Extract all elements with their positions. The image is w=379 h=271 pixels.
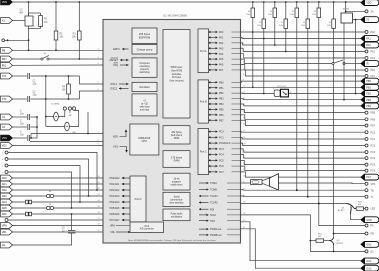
tag C4 row y127 + capacitor bbox=[1, 124, 13, 130]
wire Q1 base pull branch to terminal bbox=[319, 204, 365, 226]
tag AN5 row bbox=[1, 205, 13, 211]
tag PA2 out bbox=[361, 42, 379, 48]
pin PA5 bbox=[209, 58, 218, 60]
wire crystal junction vertical x45.8 bbox=[45, 76, 47, 127]
svg-text:RAM: RAM bbox=[174, 159, 180, 163]
svg-text:TCAP2: TCAP2 bbox=[210, 202, 218, 205]
resistor R1 parallel bbox=[29, 12, 41, 14]
svg-text:PA6: PA6 bbox=[371, 69, 376, 72]
svg-text:Port D: Port D bbox=[135, 198, 142, 201]
svg-text:PB4: PB4 bbox=[219, 103, 224, 106]
transistor Q1 bbox=[347, 204, 357, 209]
wire TCMB row bbox=[241, 189, 366, 192]
block EEPROM bbox=[132, 28, 157, 44]
wire PC6 row to terminal bbox=[241, 166, 366, 171]
svg-text:Y1 4MHz: Y1 4MHz bbox=[51, 104, 60, 106]
svg-text:PD0/AN0: PD0/AN0 bbox=[110, 177, 121, 180]
wire PA0 row to terminal bbox=[241, 31, 366, 33]
terminal PC5 out bbox=[365, 163, 368, 166]
tag GND2 bbox=[361, 242, 379, 248]
jumper pins J1 bbox=[63, 107, 66, 110]
svg-text:AN2: AN2 bbox=[2, 188, 8, 192]
svg-text:Pulse width: Pulse width bbox=[171, 212, 183, 215]
tag OSC row y99 + capacitor C2 bbox=[1, 96, 13, 102]
pin PC3 bbox=[209, 148, 218, 150]
svg-text:C3: C3 bbox=[2, 115, 6, 119]
svg-text:X2 32k: X2 32k bbox=[343, 9, 351, 11]
wire VSS row y141.5 bbox=[30, 141, 103, 143]
wire PC3 row to terminal bbox=[241, 149, 366, 152]
tag X2 out bbox=[361, 17, 379, 23]
svg-text:PA6: PA6 bbox=[219, 64, 224, 67]
wire PB4 row to terminal bbox=[241, 104, 362, 106]
terminal LED1 bbox=[365, 207, 368, 210]
svg-text:PB6: PB6 bbox=[371, 118, 376, 121]
pin PA7 bbox=[209, 69, 218, 71]
block Port C bbox=[198, 129, 209, 175]
terminal PC3 out bbox=[365, 151, 368, 154]
tag PB3 out bbox=[361, 97, 379, 103]
svg-text:PC2: PC2 bbox=[371, 145, 376, 148]
svg-text:PD6/AN6: PD6/AN6 bbox=[110, 213, 121, 216]
ferrite L2 on row 208 bbox=[47, 206, 50, 209]
svg-text:PC6: PC6 bbox=[219, 165, 224, 168]
svg-text:1M: 1M bbox=[44, 21, 47, 24]
pin PB5 bbox=[209, 108, 218, 110]
block PWM bbox=[163, 209, 190, 221]
tag RESET row y59 with switch S1 bbox=[1, 56, 13, 62]
svg-text:1: 1 bbox=[273, 88, 274, 90]
pin TCMA bbox=[199, 182, 209, 184]
svg-text:PC4: PC4 bbox=[219, 154, 224, 157]
tag PB4 out bbox=[361, 103, 379, 109]
terminal PB6 out bbox=[365, 118, 368, 121]
svg-text:PB0: PB0 bbox=[366, 80, 371, 83]
tag OUT2 bbox=[361, 265, 379, 271]
switch S1 bbox=[41, 58, 43, 60]
wire PB6 row to terminal bbox=[241, 115, 366, 119]
block oscillator bbox=[132, 82, 157, 91]
wire tag X1 to component bbox=[1, 18, 13, 24]
svg-text:AN4: AN4 bbox=[2, 200, 8, 204]
pin PB3 bbox=[209, 98, 218, 100]
svg-text:16-bit: 16-bit bbox=[174, 178, 180, 181]
svg-text:LED: LED bbox=[371, 208, 376, 211]
wire OSC2 jog bbox=[80, 91, 104, 99]
svg-text:SPK: SPK bbox=[371, 183, 376, 186]
svg-text:BC817: BC817 bbox=[337, 243, 344, 245]
svg-text:AN6: AN6 bbox=[2, 212, 8, 216]
capacitor C9 to tag bbox=[71, 214, 73, 230]
wire Q1 emitter to tag bbox=[351, 214, 361, 220]
pin PC7 bbox=[209, 171, 218, 173]
svg-text:1: 1 bbox=[34, 17, 35, 19]
svg-text:PC4: PC4 bbox=[371, 157, 376, 160]
svg-text:OSC1: OSC1 bbox=[110, 83, 117, 86]
svg-text:PA3: PA3 bbox=[371, 51, 376, 54]
wire PA5 row to terminal bbox=[241, 59, 333, 63]
pin PB0 bbox=[209, 81, 218, 83]
svg-text:PD4/AN4: PD4/AN4 bbox=[110, 201, 121, 204]
tag AN2 row bbox=[1, 187, 13, 193]
svg-text:and stop: and stop bbox=[140, 108, 150, 111]
svg-text:TCMB: TCMB bbox=[210, 189, 217, 192]
svg-text:PC5: PC5 bbox=[371, 164, 376, 167]
terminal PWMB out bbox=[365, 232, 368, 235]
svg-text:A/D converter: A/D converter bbox=[140, 228, 154, 231]
block Port B bbox=[198, 80, 209, 123]
svg-text:PA2: PA2 bbox=[219, 42, 224, 45]
pin PC6 bbox=[209, 165, 218, 167]
pin PA1 bbox=[209, 36, 218, 38]
terminal AN7 row bbox=[5, 219, 8, 222]
tag VRH row bbox=[1, 223, 13, 229]
pin PWMB out bbox=[199, 234, 209, 236]
pin TCMB bbox=[199, 189, 209, 191]
wire PC7 row to terminal bbox=[241, 172, 362, 177]
terminal PB7 out bbox=[365, 124, 368, 127]
svg-text:PB2: PB2 bbox=[366, 93, 371, 96]
tag IR out bbox=[361, 61, 379, 67]
wire PB5 row to terminal bbox=[241, 109, 366, 112]
pin PA6 bbox=[209, 64, 218, 66]
wire TCMA to terminal bbox=[278, 182, 365, 185]
wire PA3 row to terminal bbox=[241, 48, 366, 51]
terminal PA4 out bbox=[365, 57, 368, 60]
svg-text:TCAP1: TCAP1 bbox=[210, 195, 218, 198]
transistor Q2 bbox=[329, 237, 333, 241]
filter F1 on row 202 bbox=[26, 200, 29, 204]
svg-text:PA4: PA4 bbox=[371, 57, 376, 60]
pin PC5 bbox=[209, 159, 218, 161]
svg-text:VRH: VRH bbox=[2, 224, 8, 228]
svg-text:XT1: XT1 bbox=[2, 74, 7, 78]
svg-text:PD5/AN5: PD5/AN5 bbox=[110, 207, 121, 210]
svg-text:PB7: PB7 bbox=[219, 119, 224, 122]
svg-text:PC0: PC0 bbox=[371, 131, 376, 134]
pin PB7 bbox=[209, 119, 218, 121]
svg-text:C4: C4 bbox=[2, 125, 6, 129]
svg-text:GN2: GN2 bbox=[366, 244, 372, 247]
tag PB7 row y50 bbox=[1, 47, 13, 53]
svg-text:PB6: PB6 bbox=[219, 114, 224, 117]
pin PC0 bbox=[209, 131, 218, 133]
svg-text:PC6: PC6 bbox=[371, 170, 376, 173]
wire x88 vertical to VDD row bbox=[87, 112, 89, 134]
svg-text:PB7: PB7 bbox=[371, 125, 376, 128]
svg-text:PC7: PC7 bbox=[219, 171, 224, 174]
resonator X2 box bbox=[345, 2, 347, 13]
svg-text:PA4: PA4 bbox=[219, 53, 224, 56]
block 16-bit timer bbox=[163, 173, 190, 190]
terminal PA3 out bbox=[365, 50, 368, 53]
svg-text:XT2: XT2 bbox=[2, 97, 7, 101]
resistor R10 pull-up bbox=[307, 1, 309, 3]
svg-text:TDO: TDO bbox=[210, 220, 215, 223]
svg-text:ROM: ROM bbox=[174, 137, 180, 140]
svg-text:Port C: Port C bbox=[200, 151, 207, 154]
pin SCLK bbox=[199, 214, 209, 216]
tag Q1 emitter out bbox=[361, 217, 379, 223]
speaker LS1 bbox=[241, 182, 251, 184]
svg-text:User vectors): User vectors) bbox=[169, 80, 183, 83]
block Port D bbox=[130, 176, 146, 222]
svg-text:XA: XA bbox=[371, 11, 375, 14]
wire PB7 row to terminal bbox=[241, 120, 366, 125]
svg-text:GND: GND bbox=[366, 219, 372, 222]
terminal X2a bbox=[345, 11, 347, 13]
svg-text:PB0: PB0 bbox=[219, 81, 224, 84]
svg-text:PA1: PA1 bbox=[219, 37, 224, 40]
svg-text:S2 infrared: S2 infrared bbox=[334, 57, 345, 60]
svg-text:PA7: PA7 bbox=[371, 75, 376, 78]
svg-text:CPU: CPU bbox=[142, 139, 148, 143]
wire Q2 emitter bbox=[333, 245, 335, 251]
terminal E2 bbox=[365, 250, 368, 253]
svg-text:modulation: modulation bbox=[171, 215, 183, 218]
svg-text:Port B: Port B bbox=[200, 101, 207, 104]
svg-text:PWMA out: PWMA out bbox=[210, 228, 222, 231]
crystal Y2 bbox=[46, 126, 65, 128]
svg-text:PD1/AN1: PD1/AN1 bbox=[110, 183, 121, 186]
pin TCAP1 bbox=[199, 195, 209, 197]
tag PC7 out bbox=[361, 174, 379, 180]
tag VSS row y138 + capacitor bbox=[1, 135, 13, 141]
component U2 box bbox=[25, 16, 33, 26]
terminal K2 row bbox=[5, 158, 8, 161]
wire PC4 row to terminal bbox=[241, 155, 366, 159]
svg-text:AG: AG bbox=[2, 243, 6, 247]
pin PB1 bbox=[209, 87, 218, 89]
svg-text:VSS: VSS bbox=[113, 146, 118, 149]
wire PWMA row to bottom tag bbox=[241, 229, 362, 268]
pin TCAP2 bbox=[199, 202, 209, 204]
svg-text:EPP0: EPP0 bbox=[113, 48, 120, 51]
svg-text:PC3: PC3 bbox=[371, 151, 376, 154]
block user ROM bbox=[163, 30, 190, 119]
svg-text:VRL: VRL bbox=[2, 230, 8, 234]
wire Q2 collector pull-up and terminal bbox=[333, 234, 335, 237]
pin PB2 bbox=[209, 92, 218, 94]
pin PB4 bbox=[209, 103, 218, 105]
terminal K4 row bbox=[5, 171, 8, 174]
pin TDO bbox=[199, 220, 209, 222]
svg-text:RDI: RDI bbox=[210, 208, 214, 211]
svg-text:Port A: Port A bbox=[200, 50, 207, 53]
svg-text:VDD: VDD bbox=[113, 136, 118, 139]
terminal PC6 out bbox=[365, 169, 368, 172]
tag AN6 row bbox=[1, 211, 13, 217]
svg-text:OU2: OU2 bbox=[366, 267, 372, 270]
wire PA7 row to terminal bbox=[241, 70, 366, 76]
terminal TCMB out bbox=[365, 189, 368, 192]
pin PC4 bbox=[209, 154, 218, 156]
svg-text:PD2/AN2: PD2/AN2 bbox=[110, 189, 121, 192]
wire PC1 row to terminal bbox=[241, 137, 366, 139]
IR receiver U3 bbox=[274, 90, 280, 97]
wire TDO row to bottom tag bbox=[241, 222, 362, 261]
svg-text:EEPROM: EEPROM bbox=[139, 35, 150, 39]
svg-text:OU1: OU1 bbox=[366, 260, 372, 263]
svg-text:OSC2: OSC2 bbox=[110, 88, 117, 91]
wire PC0 row to terminal bbox=[241, 131, 366, 134]
wire PB3 row to terminal bbox=[241, 99, 362, 100]
tag PB2 out bbox=[361, 91, 379, 97]
svg-text:VRL: VRL bbox=[110, 231, 115, 234]
wire SCLK row to Q2 and terminal bbox=[241, 215, 366, 252]
tag AN0 row bbox=[1, 175, 13, 181]
tag VDD left bbox=[1, 0, 13, 5]
tag IRQ row y65 bbox=[1, 62, 13, 68]
wire PA2 row to terminal bbox=[241, 43, 362, 45]
svg-text:SCLK: SCLK bbox=[210, 214, 217, 217]
svg-text:PA0: PA0 bbox=[371, 31, 376, 34]
terminal TCMA out bbox=[365, 182, 368, 185]
terminal PC0 out bbox=[365, 131, 368, 134]
svg-text:VDD: VDD bbox=[366, 2, 371, 5]
wire PA6 row to terminal bbox=[241, 65, 366, 70]
svg-text:watchdog: watchdog bbox=[139, 71, 150, 74]
resistor R2 pullup bbox=[55, 2, 57, 31]
terminal PA6 out bbox=[365, 69, 368, 72]
svg-text:PC0: PC0 bbox=[219, 131, 224, 134]
wire X2 to tag bbox=[353, 19, 362, 21]
svg-text:PB2: PB2 bbox=[219, 92, 224, 95]
resistor R9 pull-up bbox=[296, 1, 298, 3]
svg-text:8-bit: 8-bit bbox=[145, 225, 150, 228]
svg-text:X1: X1 bbox=[2, 19, 6, 23]
tag OUT1 bbox=[361, 258, 379, 264]
svg-text:PC1: PC1 bbox=[371, 138, 376, 141]
svg-text:RESET: RESET bbox=[110, 59, 119, 62]
svg-text:PA5: PA5 bbox=[219, 58, 224, 61]
terminal PA7 out bbox=[365, 75, 368, 78]
svg-text:PB5: PB5 bbox=[219, 109, 224, 112]
svg-text:PB3: PB3 bbox=[219, 98, 224, 101]
svg-text:PC7: PC7 bbox=[366, 176, 371, 179]
tag AN1 row bbox=[1, 181, 13, 187]
svg-text:mable timer: mable timer bbox=[171, 184, 183, 187]
pin PC2/ECLK bbox=[209, 142, 218, 144]
pin circle K0 bbox=[2, 39, 5, 42]
wire VDD row y133.5 bbox=[31, 133, 103, 135]
switch S2 infrared bbox=[332, 62, 334, 64]
svg-text:PA7: PA7 bbox=[219, 69, 224, 72]
tag C3 row y117 + capacitor bbox=[1, 114, 13, 120]
terminal TCAP1 out bbox=[365, 195, 368, 198]
svg-text:PA: PA bbox=[371, 225, 374, 228]
svg-text:3: 3 bbox=[290, 92, 291, 94]
resistor R4 feedback 1M bbox=[68, 76, 70, 84]
wire PA1 row to terminal bbox=[241, 37, 362, 38]
terminal K3 row bbox=[5, 164, 8, 167]
svg-text:PB: PB bbox=[371, 233, 375, 236]
svg-text:PA2: PA2 bbox=[366, 44, 371, 47]
svg-text:Note: MC68HC05B6 microcontroll: Note: MC68HC05B6 microcontroller. Portio… bbox=[128, 239, 217, 242]
pin PWMA out bbox=[199, 228, 209, 230]
wire PB0 row to terminal bbox=[241, 81, 362, 82]
tag AGND row bbox=[1, 242, 13, 248]
pin PB6 bbox=[209, 114, 218, 116]
svg-text:PC5: PC5 bbox=[219, 159, 224, 162]
block self-check ROM bbox=[163, 126, 190, 144]
wire TCAP2 / Q1 base row bbox=[241, 203, 347, 205]
block A/D converter bbox=[130, 222, 164, 233]
wire TCAP1 row bbox=[241, 195, 366, 198]
svg-text:program-: program- bbox=[172, 181, 182, 184]
terminal PC1 out bbox=[365, 138, 368, 141]
block CPU M68HC05 bbox=[130, 124, 159, 155]
wire X1 vertical bbox=[28, 2, 30, 16]
pin PC1 bbox=[209, 136, 218, 138]
svg-text:PC1: PC1 bbox=[219, 136, 224, 139]
svg-text:TB: TB bbox=[371, 189, 374, 192]
svg-text:PWMB out: PWMB out bbox=[210, 234, 222, 237]
tag OSC row y76 + capacitor C1 bbox=[1, 73, 13, 79]
wire PB1 row to terminal bbox=[241, 86, 362, 88]
filter F2 on row 214 bbox=[26, 212, 29, 216]
svg-text:VRH: VRH bbox=[110, 225, 115, 228]
pin PA2 bbox=[209, 42, 218, 44]
block COP watchdog bbox=[132, 58, 157, 77]
svg-text:VDD: VDD bbox=[2, 0, 8, 4]
resistor R13 collector bbox=[356, 207, 363, 210]
wire PC5 row to terminal bbox=[241, 160, 366, 164]
svg-text:Oscillator: Oscillator bbox=[139, 85, 150, 89]
svg-text:PB: PB bbox=[2, 48, 6, 52]
ferrite L1 on row 196 bbox=[47, 194, 50, 197]
svg-text:PD7/AN7: PD7/AN7 bbox=[110, 219, 121, 222]
svg-text:PC3: PC3 bbox=[219, 148, 224, 151]
resistor R3 pullup bbox=[78, 2, 80, 31]
tag VDD right bbox=[361, 0, 379, 6]
svg-text:AN3: AN3 bbox=[2, 194, 8, 198]
tag VDD2 row y145.5 bbox=[1, 143, 13, 149]
svg-text:PD3/AN3: PD3/AN3 bbox=[110, 195, 121, 198]
resistor R11 pull-up bbox=[318, 1, 320, 3]
svg-text:PB1: PB1 bbox=[366, 86, 371, 89]
svg-text:RST: RST bbox=[2, 57, 8, 61]
svg-text:PB5: PB5 bbox=[371, 112, 376, 115]
resistor R7 pull-up bbox=[274, 1, 276, 3]
terminal PA0 out bbox=[365, 31, 368, 34]
tag PA1 out bbox=[361, 36, 379, 42]
svg-text:PA1: PA1 bbox=[366, 38, 371, 41]
terminal T225 bbox=[365, 224, 368, 227]
svg-text:PB4: PB4 bbox=[366, 105, 371, 108]
svg-text:4M: 4M bbox=[19, 12, 22, 15]
svg-text:2: 2 bbox=[34, 26, 35, 28]
svg-text:TCMA: TCMA bbox=[210, 182, 217, 185]
wire PA4 row to terminal bbox=[241, 54, 366, 58]
svg-text:Serial: Serial bbox=[174, 195, 180, 198]
pin RDI bbox=[199, 208, 209, 210]
svg-text:VD2: VD2 bbox=[2, 144, 8, 148]
tag VRL row bbox=[1, 229, 13, 235]
svg-text:PB3: PB3 bbox=[366, 99, 371, 102]
svg-text:AN1: AN1 bbox=[2, 182, 8, 186]
svg-text:IRQ: IRQ bbox=[2, 63, 7, 67]
svg-text:IR: IR bbox=[366, 63, 369, 66]
svg-text:1M: 1M bbox=[62, 89, 65, 91]
svg-text:tions interface: tions interface bbox=[169, 201, 184, 204]
pin PA3 bbox=[209, 47, 218, 49]
tag PB0 out bbox=[361, 78, 379, 84]
wire X2 down to PB row bbox=[343, 23, 345, 100]
VDD rail bbox=[10, 1, 361, 3]
MCU U1 MC68HC05B6 block bbox=[103, 20, 241, 244]
tag AN4 row bbox=[1, 199, 13, 205]
